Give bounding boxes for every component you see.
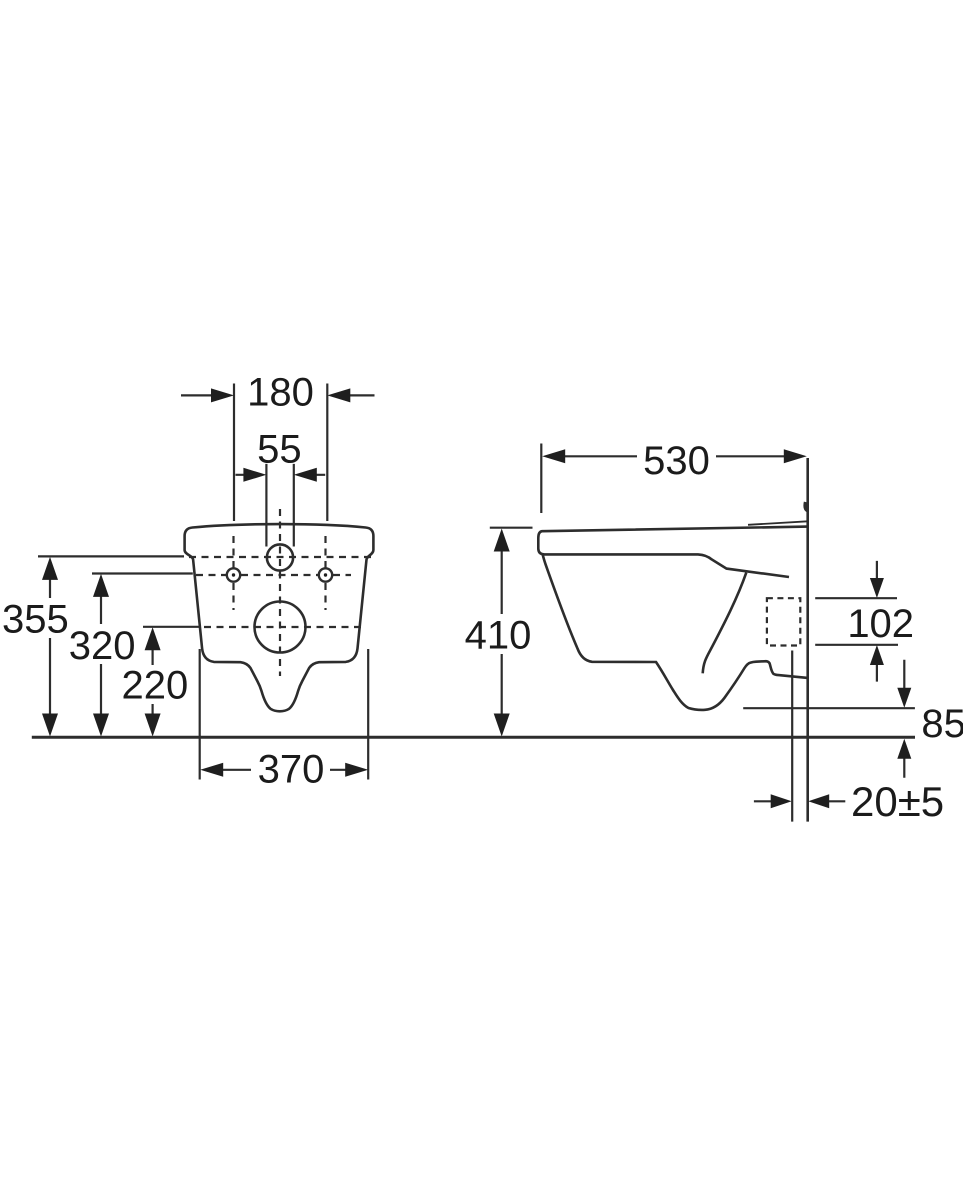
rear view body outline	[185, 524, 374, 711]
dim 102 extension lines	[815, 598, 898, 645]
rear view outlet horizontal centerline	[204, 626, 367, 628]
dim 85 extension line	[743, 707, 915, 709]
dim 55 arrows	[236, 474, 326, 476]
dim 180 extension lines	[234, 384, 327, 522]
fixing hole left	[227, 568, 240, 581]
side view bowl outline	[543, 555, 808, 710]
svg-text:355: 355	[2, 598, 69, 642]
svg-text:320: 320	[69, 624, 136, 668]
side view rim profile	[538, 527, 807, 577]
dim 530 extension line	[540, 444, 542, 514]
svg-text:102: 102	[847, 602, 914, 646]
dim 320 extension line	[92, 572, 193, 574]
dim 530 arrows	[565, 455, 785, 457]
side view rear lip line	[748, 521, 808, 525]
rear view vertical centerline	[279, 509, 281, 676]
svg-text:220: 220	[122, 664, 189, 708]
wall line	[806, 458, 809, 822]
dim 410 arrow line	[501, 551, 503, 715]
rear view hole centerline right vertical	[324, 536, 326, 610]
svg-text:180: 180	[247, 371, 314, 415]
dim 220 arrow line	[152, 649, 154, 715]
dim 55 extension lines	[266, 464, 293, 547]
dim 370 arrows	[222, 769, 346, 771]
dim 20±5 arrows	[754, 800, 845, 802]
water inlet circle	[267, 544, 293, 570]
svg-text:370: 370	[258, 748, 325, 792]
floor line	[32, 736, 915, 739]
dim 355 extension line	[38, 555, 184, 557]
svg-text:530: 530	[643, 439, 710, 483]
dim 180 arrows	[181, 394, 375, 396]
dim 220 extension line	[143, 626, 201, 628]
dashed supply box	[767, 598, 800, 645]
svg-text:410: 410	[465, 614, 532, 658]
dim 320 arrow line	[100, 596, 102, 715]
side view flush pipe stub	[805, 502, 807, 511]
svg-text:85: 85	[921, 702, 963, 746]
dim 85 arrows	[903, 660, 905, 778]
fixing hole right	[319, 568, 332, 581]
outlet circle	[255, 602, 306, 653]
svg-text:20±5: 20±5	[851, 778, 944, 825]
dim 355 arrow line	[49, 579, 51, 715]
dim 410 extension line	[490, 527, 533, 529]
side view trapway curve	[703, 573, 747, 674]
dim 102 arrows	[876, 561, 878, 682]
dim 370 extension lines	[200, 649, 369, 780]
svg-text:55: 55	[257, 428, 302, 472]
rear view holes horizontal centerline	[196, 574, 351, 576]
fixing surface line	[791, 651, 793, 822]
rear view hole centerline left vertical	[232, 536, 234, 610]
rear view inlet horizontal centerline	[189, 556, 372, 558]
